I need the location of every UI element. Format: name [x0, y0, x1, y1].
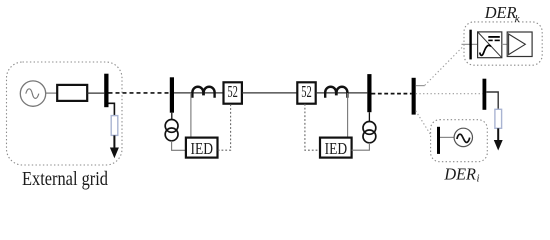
svg-text:52: 52 — [227, 82, 238, 101]
svg-text:DER: DER — [484, 3, 517, 22]
svg-text:DER: DER — [443, 165, 476, 184]
svg-text:External grid: External grid — [22, 168, 108, 190]
svg-text:k: k — [515, 13, 520, 25]
svg-text:i: i — [477, 173, 480, 185]
svg-text:IED: IED — [325, 139, 348, 158]
svg-text:IED: IED — [191, 139, 214, 158]
svg-text:52: 52 — [301, 82, 312, 101]
